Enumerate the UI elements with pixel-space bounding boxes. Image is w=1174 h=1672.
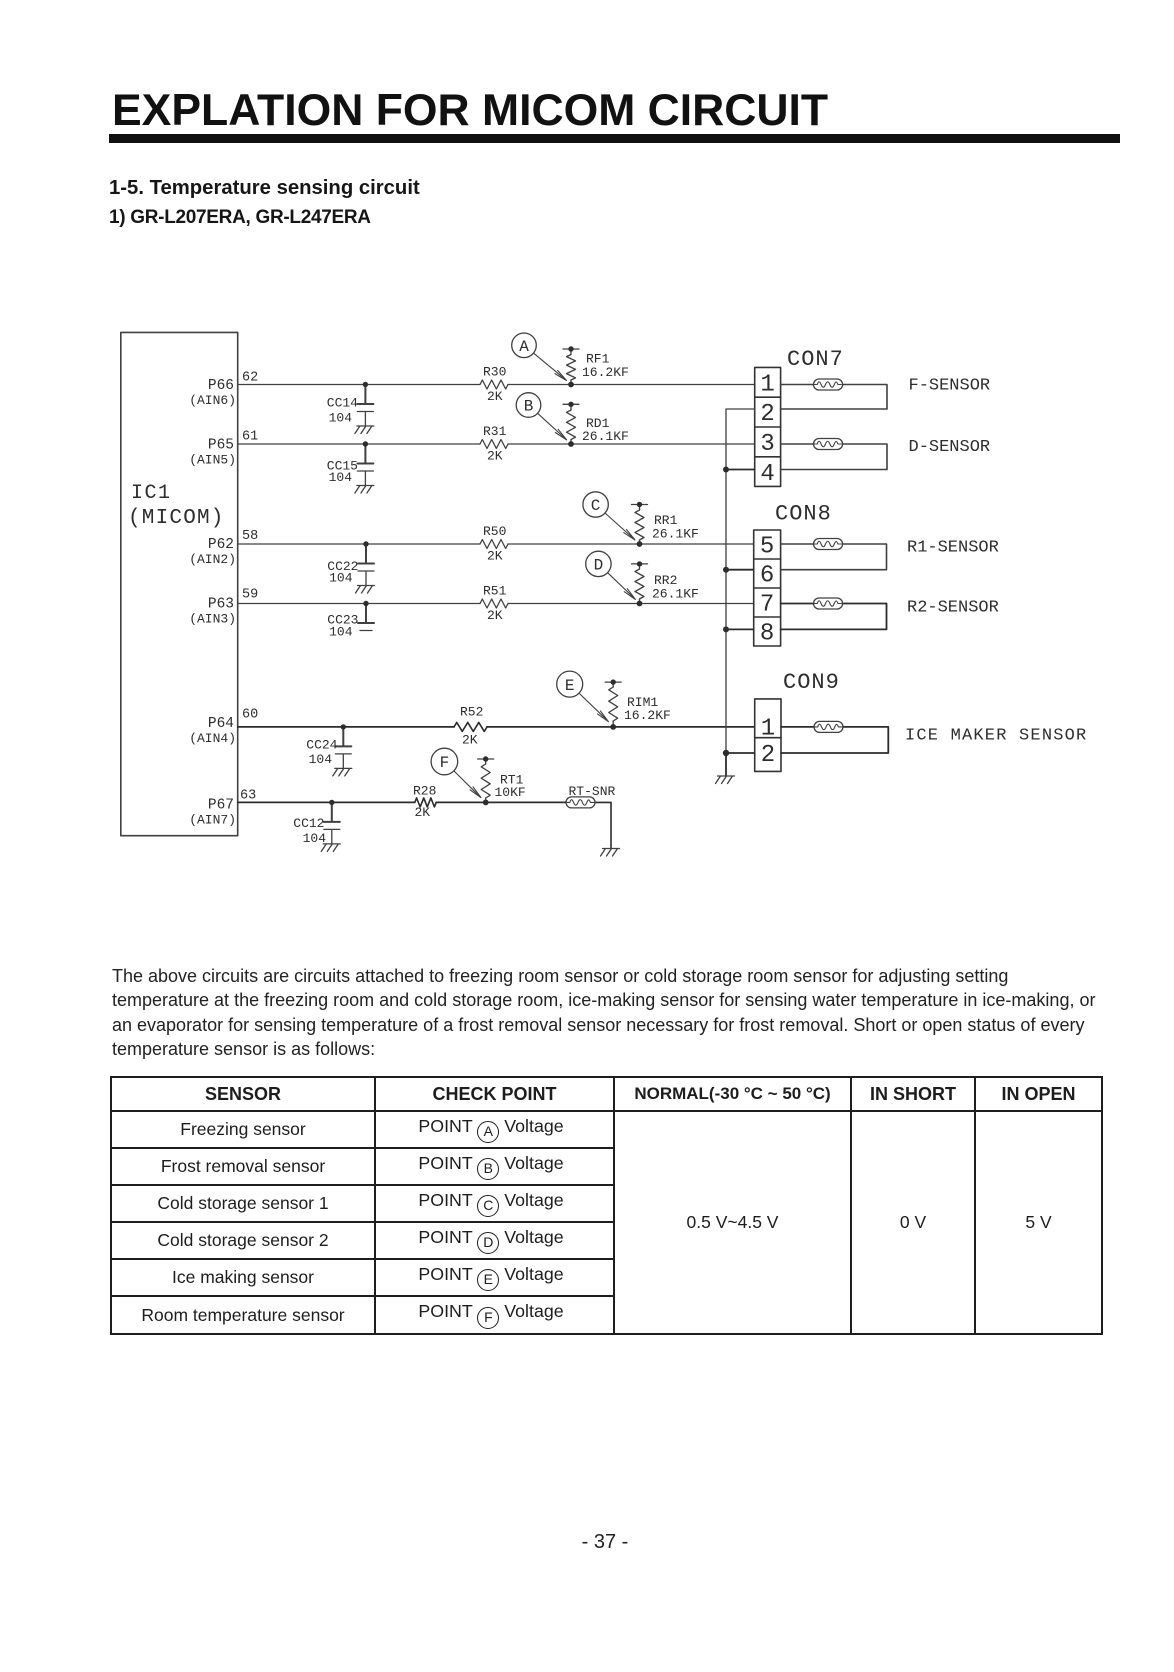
svg-text:P63: P63: [208, 597, 234, 613]
node E: circled point E with arrow: [557, 671, 609, 722]
capacitor C1: CC14 104: [327, 382, 374, 426]
svg-text:R50: R50: [483, 524, 506, 539]
capacitor C3: CC22 104: [327, 541, 374, 585]
resistor R30 2K: [480, 365, 508, 405]
svg-text:59: 59: [242, 588, 258, 603]
pin label P64 (AIN4): [189, 716, 236, 746]
sensor status table: [110, 1076, 1103, 1335]
svg-text:P67: P67: [208, 798, 234, 814]
resistor RIM1 16.2KF (vertical): [605, 679, 671, 729]
junction at CON8 pin6: [723, 567, 729, 573]
junction at CON7 pin4: [723, 467, 729, 473]
svg-text:104: 104: [329, 411, 353, 426]
wire RT-SNR to ground: [595, 802, 611, 848]
thermistor R2-SENSOR loop: [781, 598, 999, 629]
svg-text:C: C: [591, 497, 601, 515]
svg-text:63: 63: [240, 789, 256, 804]
wire stub to CON8 pin6: [726, 569, 754, 571]
wire P65 to R31: [238, 443, 480, 445]
thermistor D-SENSOR loop: [781, 438, 991, 470]
svg-text:R30: R30: [483, 365, 506, 380]
svg-text:(MICOM): (MICOM): [128, 507, 225, 530]
svg-text:E: E: [565, 677, 575, 695]
svg-text:61: 61: [242, 430, 258, 445]
svg-text:(AIN7): (AIN7): [189, 813, 236, 828]
resistor RF1 16.2KF (vertical): [563, 346, 629, 387]
svg-text:104: 104: [303, 831, 327, 846]
pin label P65 (AIN5): [189, 438, 236, 468]
node F: circled point F with arrow: [431, 748, 481, 798]
svg-text:RT-SNR: RT-SNR: [569, 784, 616, 799]
svg-text:CC12: CC12: [293, 816, 324, 831]
svg-text:3: 3: [760, 431, 774, 458]
resistor RR1 26.1KF (vertical): [632, 502, 699, 547]
svg-text:8: 8: [760, 621, 774, 648]
resistor R50 2K: [480, 524, 508, 564]
wire P64 to R52: [238, 726, 454, 728]
svg-text:58: 58: [242, 529, 258, 544]
ground (CC15): [355, 486, 374, 494]
svg-text:104: 104: [329, 470, 353, 485]
thermistor ICE MAKER SENSOR loop: [781, 721, 1087, 753]
capacitor C2: CC15 104: [327, 441, 374, 485]
wire R28 to RT-SNR: [436, 801, 566, 803]
svg-text:2K: 2K: [487, 449, 503, 464]
svg-text:F: F: [440, 754, 450, 772]
svg-text:2K: 2K: [487, 389, 503, 404]
resistor RR2 26.1KF (vertical): [632, 561, 699, 606]
svg-text:62: 62: [242, 371, 258, 386]
svg-text:A: A: [519, 338, 529, 356]
svg-text:(AIN6): (AIN6): [189, 393, 236, 408]
svg-text:26.1KF: 26.1KF: [652, 527, 699, 542]
wire R52 to CON9 pin1: [487, 726, 755, 728]
svg-text:5: 5: [760, 534, 774, 561]
svg-text:26.1KF: 26.1KF: [582, 429, 629, 444]
node C: circled point C with arrow: [583, 492, 635, 540]
resistor RT1 10KF (vertical): [478, 756, 526, 805]
thermistor R1-SENSOR loop: [781, 539, 999, 570]
svg-text:P65: P65: [208, 438, 234, 454]
svg-text:(AIN5): (AIN5): [189, 453, 236, 468]
node D: circled point D with arrow: [586, 551, 636, 599]
wire P63 to R51: [238, 603, 480, 605]
junction at CON9 pin2: [723, 750, 729, 756]
ground (CC22): [356, 586, 375, 594]
pin label P67 (AIN7): [189, 798, 236, 828]
capacitor C5: CC24 104: [306, 724, 351, 768]
svg-text:104: 104: [329, 625, 353, 640]
svg-text:CON8: CON8: [775, 502, 832, 527]
svg-text:R2-SENSOR: R2-SENSOR: [907, 599, 999, 618]
ground (bus below CON9): [716, 776, 735, 784]
connector CON9: [755, 670, 840, 771]
svg-text:104: 104: [309, 752, 333, 767]
wire R51 to CON8 pin7: [508, 603, 754, 605]
svg-text:CC14: CC14: [327, 396, 358, 411]
wire R31 to CON7 pin3: [508, 443, 755, 445]
svg-text:26.1KF: 26.1KF: [652, 587, 699, 602]
svg-text:104: 104: [329, 571, 353, 586]
svg-text:2K: 2K: [415, 805, 431, 820]
IC U1: IC1 (MICOM) box: [121, 332, 238, 835]
svg-text:B: B: [524, 398, 534, 416]
svg-text:4: 4: [760, 461, 774, 488]
svg-text:6: 6: [760, 563, 774, 590]
svg-text:D: D: [594, 557, 604, 575]
svg-text:7: 7: [760, 592, 774, 619]
node B: circled point B with arrow: [516, 393, 566, 440]
resistor R31 2K: [480, 424, 508, 464]
svg-text:R51: R51: [483, 584, 507, 599]
svg-text:10KF: 10KF: [495, 785, 526, 800]
resistor R52 2K: [454, 705, 487, 748]
svg-text:F-SENSOR: F-SENSOR: [909, 377, 991, 396]
junction at CON8 pin8: [723, 626, 729, 632]
ground (CC24): [333, 768, 352, 776]
wire P66 to R30: [238, 384, 480, 386]
pin label P63 (AIN3): [189, 597, 236, 627]
svg-text:16.2KF: 16.2KF: [582, 365, 629, 380]
svg-text:P62: P62: [208, 537, 234, 553]
resistor R51 2K: [480, 584, 508, 624]
svg-text:IC1: IC1: [131, 482, 172, 505]
thermistor F-SENSOR loop: [781, 377, 991, 410]
svg-text:60: 60: [242, 708, 258, 723]
wire R30 to CON7 pin1: [508, 384, 755, 386]
svg-text:R31: R31: [483, 424, 507, 439]
ground (RT-SNR): [601, 849, 620, 857]
svg-text:1: 1: [761, 715, 775, 742]
wire R50 to CON8 pin5: [508, 543, 754, 545]
svg-text:R1-SENSOR: R1-SENSOR: [907, 539, 999, 558]
svg-text:CC24: CC24: [306, 738, 337, 753]
wire stub to CON9 pin2 and ground stem: [726, 753, 755, 776]
resistor R28 2K: [413, 784, 436, 821]
ground (CC12): [321, 844, 340, 852]
pin label P66 (AIN6): [189, 378, 236, 408]
pin label P62 (AIN2): [189, 537, 236, 567]
thermistor RT-SNR: [566, 784, 616, 808]
connector CON7: [755, 347, 844, 488]
wire P67 to R28: [238, 801, 415, 803]
wire stub to CON7 pin4: [726, 469, 755, 471]
wire stub to CON8 pin8: [726, 628, 754, 630]
svg-text:ICE MAKER SENSOR: ICE MAKER SENSOR: [905, 727, 1087, 746]
svg-text:(AIN4): (AIN4): [189, 731, 236, 746]
svg-text:2K: 2K: [487, 549, 503, 564]
resistor RD1 26.1KF (vertical): [563, 402, 629, 447]
svg-text:2K: 2K: [487, 608, 503, 623]
svg-text:2: 2: [760, 401, 774, 428]
svg-text:P66: P66: [208, 378, 234, 394]
svg-text:CON7: CON7: [787, 347, 844, 372]
svg-text:2K: 2K: [462, 733, 478, 748]
svg-text:D-SENSOR: D-SENSOR: [909, 438, 991, 457]
connector CON8: [754, 502, 832, 648]
svg-text:16.2KF: 16.2KF: [624, 708, 671, 723]
svg-text:CON9: CON9: [783, 670, 840, 695]
capacitor C6: CC12 104: [293, 800, 340, 846]
capacitor C4: CC23 104 (no ground shown): [327, 601, 374, 640]
svg-text:(AIN3): (AIN3): [189, 612, 236, 627]
ground (CC14): [355, 426, 374, 434]
svg-text:R28: R28: [413, 784, 436, 799]
wire P62 to R50: [238, 543, 480, 545]
svg-text:R52: R52: [460, 705, 483, 720]
svg-text:P64: P64: [208, 716, 234, 732]
svg-text:(AIN2): (AIN2): [189, 552, 236, 567]
wire: return bus (CON7 pin2 down to CON9 pin2): [726, 409, 755, 753]
svg-text:1: 1: [760, 371, 774, 398]
node A: circled point A with arrow: [512, 333, 567, 381]
svg-text:2: 2: [761, 742, 775, 769]
